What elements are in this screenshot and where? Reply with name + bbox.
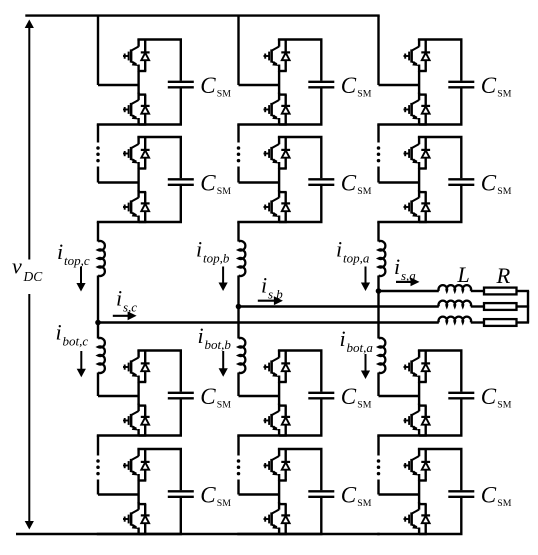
svg-text:SM: SM bbox=[357, 498, 371, 509]
svg-text:C: C bbox=[200, 483, 216, 508]
svg-text:C: C bbox=[341, 73, 357, 98]
svg-text:SM: SM bbox=[217, 400, 231, 411]
svg-text:SM: SM bbox=[497, 89, 511, 100]
svg-text:SM: SM bbox=[497, 400, 511, 411]
svg-text:i: i bbox=[56, 320, 62, 345]
svg-text:top,c: top,c bbox=[64, 253, 90, 268]
svg-text:C: C bbox=[200, 171, 216, 196]
svg-text:L: L bbox=[457, 262, 470, 287]
svg-text:SM: SM bbox=[357, 400, 371, 411]
svg-text:SM: SM bbox=[217, 89, 231, 100]
svg-text:s,c: s,c bbox=[123, 300, 137, 315]
svg-text:s,a: s,a bbox=[401, 268, 416, 283]
svg-text:SM: SM bbox=[217, 186, 231, 197]
svg-text:C: C bbox=[200, 73, 216, 98]
svg-text:bot,a: bot,a bbox=[347, 340, 374, 355]
svg-text:i: i bbox=[116, 286, 122, 311]
svg-text:bot,b: bot,b bbox=[205, 337, 232, 352]
svg-text:C: C bbox=[481, 171, 497, 196]
svg-text:C: C bbox=[481, 483, 497, 508]
svg-text:SM: SM bbox=[497, 186, 511, 197]
svg-text:C: C bbox=[481, 73, 497, 98]
svg-text:DC: DC bbox=[23, 269, 44, 284]
svg-text:i: i bbox=[261, 273, 267, 298]
svg-text:s,b: s,b bbox=[268, 287, 283, 302]
svg-text:R: R bbox=[496, 263, 511, 288]
svg-text:i: i bbox=[196, 237, 202, 262]
svg-text:SM: SM bbox=[357, 186, 371, 197]
svg-text:i: i bbox=[394, 254, 400, 279]
svg-text:top,a: top,a bbox=[343, 251, 370, 266]
svg-text:i: i bbox=[198, 323, 204, 348]
svg-text:top,b: top,b bbox=[203, 251, 230, 266]
svg-text:C: C bbox=[341, 483, 357, 508]
svg-text:v: v bbox=[12, 254, 22, 279]
svg-text:SM: SM bbox=[217, 498, 231, 509]
svg-text:SM: SM bbox=[497, 498, 511, 509]
svg-text:bot,c: bot,c bbox=[63, 334, 89, 349]
svg-text:SM: SM bbox=[357, 89, 371, 100]
svg-text:i: i bbox=[340, 326, 346, 351]
svg-text:i: i bbox=[336, 237, 342, 262]
svg-text:C: C bbox=[200, 384, 216, 409]
svg-text:i: i bbox=[57, 239, 63, 264]
svg-text:C: C bbox=[341, 171, 357, 196]
svg-text:C: C bbox=[341, 384, 357, 409]
svg-text:C: C bbox=[481, 384, 497, 409]
